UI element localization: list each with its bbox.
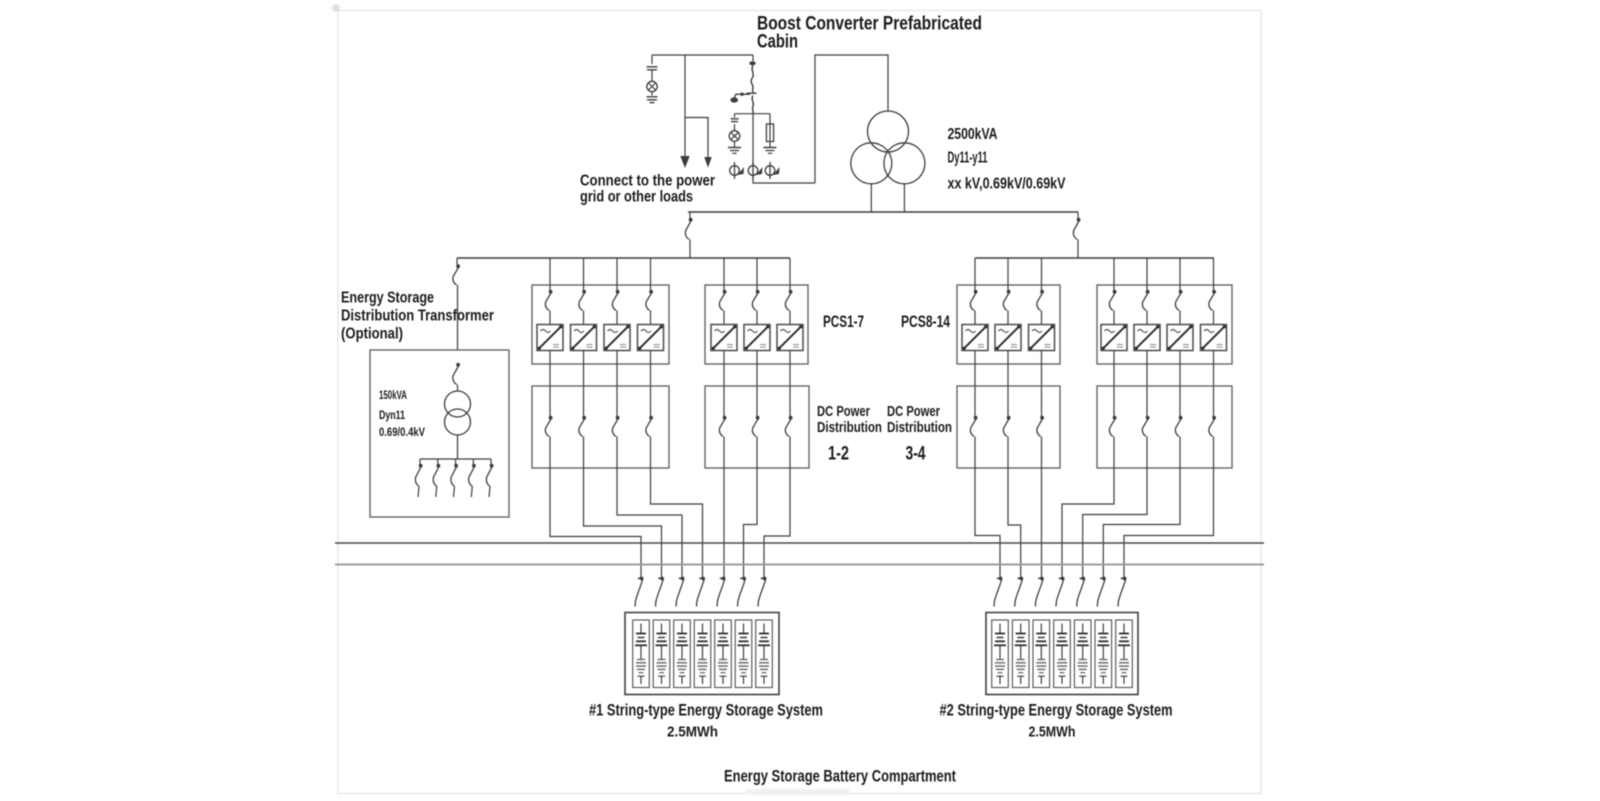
arrow: to power grid feeder 1 <box>680 156 689 168</box>
svg-text:Dyn11: Dyn11 <box>379 410 405 422</box>
breaker PCS-B-2 <box>752 290 759 311</box>
battery string #2 cell 4 <box>1054 620 1071 688</box>
svg-text:Connect to the power: Connect to the power <box>580 173 715 190</box>
surge arrester F1 <box>647 81 657 91</box>
metering CT a <box>730 162 744 179</box>
wire: DC in DC-A-4 <box>650 386 652 416</box>
wire: DC in DC-B-3 <box>789 386 791 416</box>
svg-text:PCS8-14: PCS8-14 <box>901 312 950 331</box>
breaker PCS-A-3 <box>612 290 619 311</box>
battery string #2 cell 2 <box>1012 620 1029 688</box>
wire: bus drop PCS-B-3 <box>789 258 791 290</box>
feeder breaker 1 <box>415 464 422 487</box>
wire: bus drop PCS-D-4 <box>1213 258 1215 290</box>
DC switch DC-B-2 <box>752 416 759 437</box>
breaker PCS-A-4 <box>646 290 653 311</box>
DC switch DC-D-4 <box>1209 416 1216 437</box>
svg-text:Cabin: Cabin <box>757 32 798 53</box>
wire: DC in DC-A-1 <box>549 386 551 416</box>
box: PCS cabinet PCS-D <box>1097 285 1232 364</box>
battery switch #2-3 <box>1035 577 1044 607</box>
converter (AC/DC) PCS-C-3 <box>1029 325 1055 351</box>
battery switch #1-4 <box>697 577 705 607</box>
svg-text:#2 String-type Energy Storage: #2 String-type Energy Storage System <box>940 701 1173 720</box>
wire: HV top bus <box>652 54 753 56</box>
wire: bus drop PCS-A-3 <box>616 258 618 290</box>
wire: DC-R4 to battery #2 string 4 <box>1062 468 1114 577</box>
wire: feeder 3 drop <box>455 459 457 464</box>
wire: QF-T to aux box <box>457 285 459 350</box>
converter (AC/DC) PCS-B-2 <box>744 325 770 351</box>
wire: breaker to converter PCS-D-2 <box>1146 311 1148 325</box>
svg-text:2.5MWh: 2.5MWh <box>667 724 718 741</box>
DC switch DC-B-1 <box>719 416 726 437</box>
wire: QS1 to CT string <box>752 113 754 166</box>
ghost smudge below compartment label <box>745 789 850 795</box>
wire: converter PCS-B-2 to DC box <box>756 351 758 387</box>
wire: breaker to converter PCS-D-4 <box>1213 311 1215 325</box>
wire: PT branch left drop <box>734 114 736 118</box>
box: DC power distribution DC-C <box>957 386 1060 468</box>
svg-text:0.69/0.4kV: 0.69/0.4kV <box>379 427 425 439</box>
wire: DC out DC-D-2 <box>1146 437 1148 469</box>
transformer T1 (three winding) <box>851 111 925 184</box>
battery string #1 cell 2 <box>653 620 670 688</box>
battery switch #2-7 <box>1118 577 1127 607</box>
wire: DC out DC-A-3 <box>616 437 618 469</box>
box: DC power distribution DC-D <box>1097 386 1232 468</box>
wire: breaker to converter PCS-A-4 <box>650 311 652 325</box>
battery string #1 cell 6 <box>735 620 752 688</box>
wire: feeder 2 drop <box>437 459 439 464</box>
battery string #2 cell 3 <box>1033 620 1050 688</box>
breaker PCS-D-1 <box>1109 290 1116 311</box>
wire: feeder 4 drop <box>472 459 474 464</box>
wire: to transformer T2 <box>457 385 459 392</box>
wire: DC out DC-C-2 <box>1007 437 1009 469</box>
wire: bus drop PCS-B-1 <box>723 258 725 290</box>
svg-text:Distribution: Distribution <box>887 420 952 436</box>
DC switch DC-A-1 <box>545 416 552 437</box>
breaker PCS-C-2 <box>1003 290 1010 311</box>
battery switch #1-7 <box>758 577 766 607</box>
converter (AC/DC) PCS-C-1 <box>962 325 988 351</box>
DC switch DC-C-1 <box>970 416 977 437</box>
wire: fuse branch drop <box>769 114 771 124</box>
svg-text:PCS1-7: PCS1-7 <box>823 312 864 331</box>
DC switch DC-A-4 <box>646 416 653 437</box>
battery string #2 cell 7 <box>1116 620 1133 688</box>
svg-text:#1 String-type Energy Storage: #1 String-type Energy Storage System <box>589 701 823 720</box>
transformer T2 (two winding 150kVA) <box>445 391 471 435</box>
wire: converter PCS-D-3 to DC box <box>1179 351 1181 387</box>
wire: DC in DC-B-1 <box>723 386 725 416</box>
voltage transformer TV1 <box>729 131 740 142</box>
arrow: to power grid feeder 2 <box>704 157 712 168</box>
contact bar QS1 <box>747 92 757 94</box>
wire: DC in DC-C-1 <box>974 386 976 416</box>
feeder breaker 3 <box>451 464 458 487</box>
breaker PCS-C-1 <box>970 290 977 311</box>
metering CT b <box>748 162 762 179</box>
converter (AC/DC) PCS-A-3 <box>604 325 630 351</box>
battery switch #2-2 <box>1015 577 1023 607</box>
wire: QF-L to bus A <box>689 240 691 259</box>
battery string #1 cell 1 <box>633 620 650 688</box>
wire: DC out DC-A-1 <box>549 437 551 469</box>
wire: DC out DC-D-1 <box>1113 437 1115 469</box>
wire: breaker to converter PCS-A-2 <box>583 311 585 325</box>
svg-text:150kVA: 150kVA <box>379 390 407 402</box>
box: DC power distribution DC-A <box>532 386 669 468</box>
wire: bus drop PCS-B-2 <box>756 258 758 290</box>
wire: arrester branch drop <box>651 55 653 64</box>
battery switch #1-2 <box>656 577 664 607</box>
wire: right feed drop <box>1077 212 1079 218</box>
converter (AC/DC) PCS-D-4 <box>1201 325 1227 351</box>
wire: DC out DC-B-1 <box>723 437 725 469</box>
wire: DC-L7 to battery #1 string 7 <box>764 468 790 577</box>
earthing switch of QS1 <box>734 94 750 98</box>
breaker PCS-D-2 <box>1142 290 1149 311</box>
wire: breaker to converter PCS-B-1 <box>723 311 725 325</box>
battery switch #1-1 <box>635 577 643 607</box>
wire: DC-L2 to battery #1 string 2 <box>584 468 662 577</box>
battery string #1 cell 3 <box>674 620 691 688</box>
DC switch DC-B-3 <box>785 416 792 437</box>
converter (AC/DC) PCS-A-1 <box>537 325 563 351</box>
battery string #2 cell 5 <box>1074 620 1091 688</box>
wire: T2 to LV bar <box>457 435 459 459</box>
disconnector QS1 upper contact <box>749 61 755 65</box>
wire: breaker to converter PCS-B-3 <box>789 311 791 325</box>
breaker PCS-A-2 <box>579 290 586 311</box>
svg-text:Dy11-y11: Dy11-y11 <box>948 150 988 167</box>
wire: CT string to riser <box>753 176 815 183</box>
wire: HV switch drop <box>752 55 754 61</box>
battery switch #1-3 <box>676 577 684 607</box>
box: DC power distribution DC-B <box>705 386 809 468</box>
breaker inside aux cabinet <box>453 363 460 385</box>
wire: fuse to ground <box>769 142 771 148</box>
wire: DC in DC-D-4 <box>1213 386 1215 416</box>
wire: outgoing feeder 2 branch <box>685 118 708 159</box>
svg-text:Distribution: Distribution <box>817 420 882 436</box>
wire: converter PCS-B-1 to DC box <box>723 351 725 387</box>
wire: DC-R5 to battery #2 string 5 <box>1083 468 1147 577</box>
box: PCS cabinet PCS-B <box>705 285 808 364</box>
wire: riser to transformer T1 primary <box>815 55 888 183</box>
svg-text:Distribution Transformer: Distribution Transformer <box>341 308 494 325</box>
box: battery system #2 <box>986 613 1138 695</box>
feeder breaker 5 <box>486 464 493 487</box>
gap: PT branch <box>731 119 739 122</box>
wire: breaker to converter PCS-C-2 <box>1007 311 1009 325</box>
wire: DC out DC-A-4 <box>650 437 652 469</box>
wire: PT branch bar <box>735 113 771 115</box>
converter (AC/DC) PCS-D-2 <box>1134 325 1160 351</box>
node: compartment bus (dark) <box>335 542 1264 544</box>
wire: T1 secondary leg a <box>870 184 872 212</box>
wire: converter PCS-C-3 to DC box <box>1041 351 1043 387</box>
converter (AC/DC) PCS-B-3 <box>777 325 803 351</box>
wire: DC out DC-B-2 <box>756 437 758 469</box>
svg-text:2.5MWh: 2.5MWh <box>1029 724 1076 741</box>
battery switch #2-1 <box>994 577 1002 607</box>
wire: feeder 2 tail <box>436 487 437 498</box>
node: AC bus B (right) <box>975 257 1214 259</box>
wire: DC-L5 to battery #1 string 5 <box>723 468 725 577</box>
wire: DC out DC-D-4 <box>1213 437 1215 469</box>
breaker QF-R (PCS8-14 feed) <box>1073 218 1080 240</box>
DC switch DC-D-1 <box>1109 416 1116 437</box>
battery string #2 cell 1 <box>992 620 1009 688</box>
wire: DC in DC-D-3 <box>1179 386 1181 416</box>
wire: DC out DC-C-3 <box>1041 437 1043 469</box>
wire: DC in DC-A-3 <box>616 386 618 416</box>
breaker PCS-B-3 <box>785 290 792 311</box>
wire: to voltage transformer <box>734 124 736 131</box>
spark gap lower (arrester F1) <box>647 97 658 100</box>
wire: converter PCS-D-1 to DC box <box>1113 351 1115 387</box>
converter (AC/DC) PCS-D-3 <box>1167 325 1193 351</box>
wire: T1 secondary leg b <box>903 184 905 212</box>
wire: converter PCS-D-4 to DC box <box>1213 351 1215 387</box>
wire: converter PCS-A-4 to DC box <box>650 351 652 387</box>
svg-text:(Optional): (Optional) <box>341 326 403 343</box>
battery string #1 cell 5 <box>715 620 732 688</box>
wire: TV1 to ground <box>734 141 736 147</box>
battery string #2 cell 6 <box>1095 620 1112 688</box>
DC switch DC-D-2 <box>1142 416 1149 437</box>
wire: DC-L3 to battery #1 string 3 <box>617 468 682 577</box>
wire: DC-R3 to battery #2 string 3 <box>1041 468 1043 577</box>
fuse FU1 <box>766 124 773 142</box>
wire: DC in DC-D-1 <box>1113 386 1115 416</box>
breaker PCS-B-1 <box>719 290 726 311</box>
feeder breaker 4 <box>469 464 476 487</box>
wire: outgoing feeder 1 <box>684 55 686 157</box>
wire: left feed drop <box>689 212 691 218</box>
wire: arrester to lower gap <box>651 92 653 96</box>
wire: bus drop PCS-A-2 <box>583 258 585 290</box>
svg-text:DC Power: DC Power <box>817 404 870 420</box>
wire: breaker to converter PCS-B-2 <box>756 311 758 325</box>
wire: bus drop PCS-C-1 <box>974 258 976 290</box>
node: AC bus A (left) <box>457 257 790 259</box>
wire: breaker to converter PCS-D-3 <box>1179 311 1181 325</box>
wire: breaker to converter PCS-A-3 <box>616 311 618 325</box>
wire: converter PCS-A-2 to DC box <box>583 351 585 387</box>
wire: feeder 5 drop <box>490 459 492 464</box>
node: 0.4kV distribution bar <box>420 458 491 460</box>
wire: DC-L1 to battery #1 string 1 <box>550 468 641 577</box>
corner artifact mark <box>332 4 340 12</box>
wire: feeder 1 tail <box>418 487 419 498</box>
breaker PCS-A-1 <box>545 290 552 311</box>
wire: DC in DC-C-3 <box>1041 386 1043 416</box>
breaker PCS-C-3 <box>1037 290 1044 311</box>
wire: DC out DC-A-2 <box>583 437 585 469</box>
battery switch #2-4 <box>1056 577 1065 607</box>
wire: bus drop PCS-D-1 <box>1113 258 1115 290</box>
DC switch DC-C-2 <box>1003 416 1010 437</box>
DC switch DC-A-2 <box>579 416 586 437</box>
wire: converter PCS-D-2 to DC box <box>1146 351 1148 387</box>
breaker QF-L (PCS1-7 feed) <box>685 218 692 240</box>
battery switch #2-6 <box>1097 577 1106 607</box>
wire: feeder 3 tail <box>454 487 455 498</box>
DC switch DC-C-3 <box>1037 416 1044 437</box>
wire: bus drop PCS-C-2 <box>1007 258 1009 290</box>
wire: feeder 5 tail <box>489 487 490 498</box>
wire: DC out DC-C-1 <box>974 437 976 469</box>
wire: DC-L6 to battery #1 string 6 <box>744 468 758 577</box>
svg-text:1-2: 1-2 <box>828 444 849 465</box>
breaker QF-T (aux transformer feed) <box>453 264 460 285</box>
wire: DC-R1 to battery #2 string 1 <box>975 468 1000 577</box>
wire: DC in DC-A-2 <box>583 386 585 416</box>
converter (AC/DC) PCS-C-2 <box>995 325 1021 351</box>
battery switch #1-5 <box>717 577 725 607</box>
wire: converter PCS-B-3 to DC box <box>789 351 791 387</box>
box: battery system #1 <box>625 613 779 695</box>
wire: feeder 1 drop <box>419 459 421 464</box>
box: PCS cabinet PCS-A <box>532 285 669 364</box>
wire: converter PCS-C-1 to DC box <box>974 351 976 387</box>
wire: DC out DC-D-3 <box>1179 437 1181 469</box>
frame: diagram border <box>338 11 1261 794</box>
node: 0.69kV header bus <box>688 211 1078 213</box>
box: aux transformer cabinet <box>370 350 509 517</box>
wire: DC out DC-B-3 <box>789 437 791 469</box>
battery switch #2-5 <box>1077 577 1086 607</box>
converter (AC/DC) PCS-D-1 <box>1101 325 1127 351</box>
wire: breaker to converter PCS-C-1 <box>974 311 976 325</box>
wire: converter PCS-A-3 to DC box <box>616 351 618 387</box>
wire: breaker to converter PCS-C-3 <box>1041 311 1043 325</box>
svg-text:Energy Storage: Energy Storage <box>341 290 434 307</box>
DC switch DC-A-3 <box>612 416 619 437</box>
disconnector QS1 lower blade <box>752 96 753 114</box>
svg-text:2500kVA: 2500kVA <box>948 126 998 143</box>
DC switch DC-D-3 <box>1175 416 1182 437</box>
wire: DC in DC-B-2 <box>756 386 758 416</box>
wire: DC-R2 to battery #2 string 2 <box>1008 468 1021 577</box>
wire: bus drop PCS-C-3 <box>1041 258 1043 290</box>
wire: gap to arrester <box>651 70 653 82</box>
svg-text:DC Power: DC Power <box>887 404 940 420</box>
spark gap upper (arrester F1) <box>647 67 658 70</box>
wire: aux branch drop <box>456 258 458 265</box>
wire: QF-R to bus B <box>1077 240 1079 259</box>
battery switch #1-6 <box>738 577 746 607</box>
wire: DC-R6 to battery #2 string 6 <box>1103 468 1180 577</box>
converter (AC/DC) PCS-B-1 <box>711 325 737 351</box>
wire: DC-R7 to battery #2 string 7 <box>1124 468 1214 577</box>
ground FU1 <box>764 148 777 154</box>
wire: breaker to converter PCS-D-1 <box>1113 311 1115 325</box>
svg-text:grid or other loads: grid or other loads <box>580 189 693 206</box>
wire: DC-L4 to battery #1 string 4 <box>651 468 703 577</box>
wire: converter PCS-C-2 to DC box <box>1007 351 1009 387</box>
wire: bus drop PCS-A-4 <box>650 258 652 290</box>
battery string #1 cell 4 <box>694 620 711 688</box>
metering CT c <box>765 162 779 179</box>
svg-text:3-4: 3-4 <box>906 444 926 465</box>
converter (AC/DC) PCS-A-2 <box>571 325 597 351</box>
wire: bus drop PCS-D-3 <box>1179 258 1181 290</box>
svg-text:xx kV,0.69kV/0.69kV: xx kV,0.69kV/0.69kV <box>948 176 1066 193</box>
wire: feeder 4 tail <box>471 487 472 498</box>
wire: bus drop PCS-A-1 <box>549 258 551 290</box>
feeder breaker 2 <box>433 464 440 487</box>
ground tick arrester F1 <box>650 102 655 104</box>
converter (AC/DC) PCS-A-4 <box>638 325 664 351</box>
node: compartment boundary line (gray) <box>335 564 1264 566</box>
box: PCS cabinet PCS-C <box>957 285 1060 364</box>
breaker PCS-D-4 <box>1209 290 1216 311</box>
ground TV1 <box>728 148 741 154</box>
svg-text:Energy Storage Battery Compart: Energy Storage Battery Compartment <box>724 767 956 786</box>
breaker PCS-D-3 <box>1175 290 1182 311</box>
wire: breaker to converter PCS-A-1 <box>549 311 551 325</box>
battery string #1 cell 7 <box>756 620 773 688</box>
wire: DC in DC-C-2 <box>1007 386 1009 416</box>
wire: bus drop PCS-D-2 <box>1146 258 1148 290</box>
wire: DC in DC-D-2 <box>1146 386 1148 416</box>
wire: converter PCS-A-1 to DC box <box>549 351 551 387</box>
